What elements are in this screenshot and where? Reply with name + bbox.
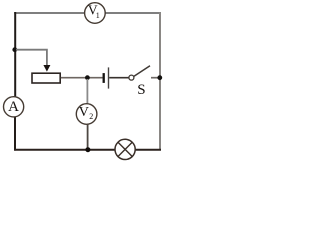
junction node bottom: [85, 147, 90, 152]
voltmeter V2: [76, 104, 97, 125]
rheostat slider arrow: [43, 65, 50, 72]
wire V2 branch lower: [87, 124, 89, 149]
wire left lower segment: [14, 117, 16, 151]
lamp: [115, 139, 135, 159]
svg-text:V: V: [79, 105, 89, 120]
junction node left: [12, 47, 17, 52]
wire bottom-right segment: [135, 149, 161, 151]
rheostat R box: [32, 73, 60, 83]
svg-text:A: A: [8, 99, 19, 115]
svg-text:S: S: [137, 82, 145, 98]
wire branch to slider: [16, 50, 47, 66]
switch S: [129, 66, 150, 99]
ammeter A: [4, 97, 24, 117]
wire V2 branch upper: [86, 79, 88, 104]
svg-text:1: 1: [96, 11, 100, 20]
wire top-right segment: [105, 12, 161, 14]
wire switch stub: [151, 77, 159, 79]
junction node V2 top: [85, 75, 90, 80]
junction node right: [157, 75, 162, 80]
wire left upper segment: [14, 12, 16, 97]
voltmeter V1: [85, 2, 106, 23]
battery: [104, 67, 109, 88]
wire top-left segment: [14, 12, 84, 14]
wire battery to switch: [109, 77, 129, 79]
wire rheostat to battery: [61, 77, 103, 79]
svg-text:2: 2: [89, 112, 93, 121]
wire bottom-left segment: [14, 149, 115, 151]
wire right side: [159, 12, 161, 150]
